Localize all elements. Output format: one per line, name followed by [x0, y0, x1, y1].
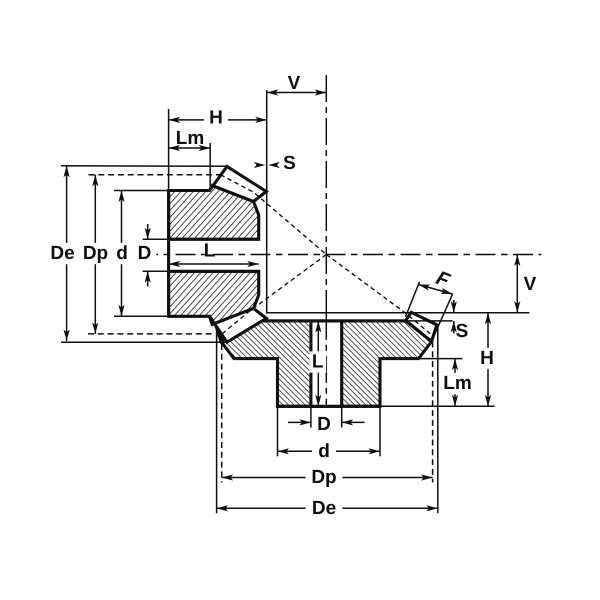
svg-text:Lm: Lm [443, 373, 472, 394]
dimension H (wheel) [487, 313, 489, 407]
svg-text:d: d [116, 243, 128, 264]
label Dp bottom [306, 467, 343, 488]
pinion bore (white) [169, 239, 259, 271]
dimension d (wheel hub diameter) [278, 450, 381, 452]
svg-text:S: S [456, 321, 469, 342]
vertical centerline (wheel axis) [325, 75, 327, 313]
svg-text:Dp: Dp [83, 243, 108, 264]
bottom gear body (hatched section) [221, 321, 431, 406]
wheel Dp extension lines (dashed) [221, 334, 223, 482]
pinion lower body (hatched section) [169, 271, 259, 324]
pinion front face line [167, 191, 170, 317]
wheel top face extension line [406, 320, 453, 322]
svg-text:V: V [524, 274, 537, 295]
label De left [44, 243, 81, 264]
dimension H (pinion) [169, 119, 267, 121]
svg-text:De: De [50, 243, 74, 264]
wheel rim bottom extension line [419, 358, 463, 360]
svg-text:D: D [138, 243, 152, 264]
pitch cone line apex to right pitch point [326, 255, 431, 335]
pinion bore extension lines (D) [143, 238, 169, 240]
svg-text:S: S [283, 153, 296, 174]
bottom gear bore [311, 321, 342, 406]
dimension S (wheel) [453, 300, 455, 313]
wheel bottom face extension line [380, 405, 495, 407]
label Lm right [439, 373, 476, 394]
dimension d (pinion hub diameter) [121, 191, 123, 317]
pinion front face extension line (H/Lm) [168, 109, 170, 191]
label De bottom [306, 498, 343, 519]
dimension L (wheel bore length) [317, 321, 319, 406]
svg-text:V: V [288, 73, 301, 94]
dimension Lm (wheel hub length) [454, 359, 456, 407]
dimension S (pinion) [254, 162, 265, 168]
dimension F (face width) [418, 285, 452, 295]
dimension De (pinion outside diameter) [66, 166, 68, 341]
dimension D (pinion bore) arrows [147, 224, 149, 239]
dimension D (wheel bore) [288, 421, 311, 423]
svg-text:D: D [317, 414, 331, 435]
dimension L (pinion bore length) [169, 263, 259, 265]
dimension V (pinion mounting distance) [267, 92, 327, 94]
De top extension line [61, 165, 227, 168]
bottom gear bottom face line [278, 405, 381, 408]
svg-text:Lm: Lm [176, 128, 205, 149]
pinion upper body (hatched section) [169, 186, 259, 240]
pinion hub corner extension line (Lm) [209, 143, 211, 190]
wheel De extension lines [216, 329, 218, 513]
svg-text:Dp: Dp [311, 467, 336, 488]
wheel hub extension lines (d) [277, 406, 279, 456]
horizontal centerline (pinion axis) [150, 254, 541, 256]
pinion back-face extension line + wheel crown plane line [267, 90, 530, 313]
svg-text:L: L [204, 240, 216, 261]
dimension V (wheel) [516, 255, 518, 313]
label d left [110, 243, 134, 264]
label H right [475, 348, 499, 369]
svg-text:De: De [312, 498, 336, 519]
label L wheel [309, 351, 326, 372]
dimension Dp (wheel pitch diameter) [222, 477, 433, 479]
De bottom extension line [61, 341, 227, 343]
pinion lower tooth crown [210, 308, 267, 342]
bottom gear left tooth crown [216, 312, 247, 341]
dimension Lm (pinion hub length) [169, 147, 211, 149]
pitch cone line apex to mesh pitch point [222, 255, 327, 335]
pinion upper tooth crown [210, 167, 267, 202]
svg-text:H: H [209, 108, 223, 129]
Dp bottom extension line (dashed) [88, 333, 216, 335]
d top extension line [114, 190, 169, 192]
svg-text:H: H [480, 348, 494, 369]
label d bottom [312, 441, 336, 462]
d bottom extension line [114, 315, 169, 317]
label D left [133, 243, 157, 264]
label H top [204, 107, 228, 128]
dimension Dp (pinion pitch diameter) [94, 175, 96, 334]
label Dp left [77, 243, 114, 264]
bottom gear right tooth crown [406, 312, 437, 341]
dimension De (wheel outside diameter) [217, 507, 438, 509]
bottom gear top face line [247, 319, 406, 322]
pitch cone line apex to upper pitch point [221, 175, 327, 255]
wheel bore extension lines (D) [310, 406, 312, 427]
svg-text:d: d [318, 441, 330, 462]
F extension lines [405, 282, 419, 317]
svg-text:L: L [312, 352, 324, 373]
Dp top extension line (dashed) [89, 174, 221, 176]
